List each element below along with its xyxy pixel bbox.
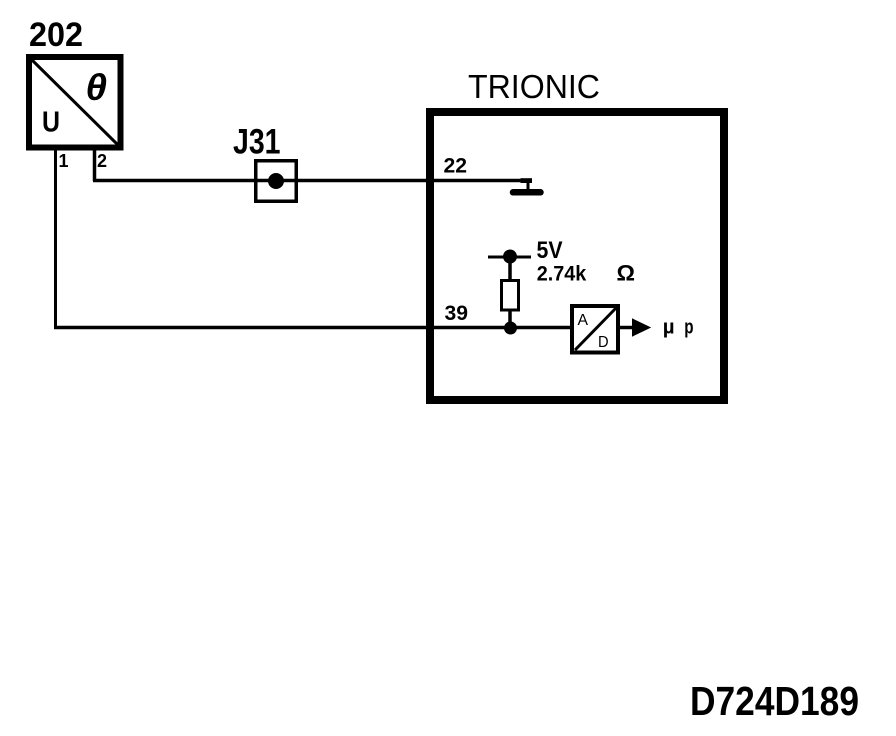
svg-text:2.74k: 2.74k [537,262,587,285]
5V supply rail [488,250,531,264]
wire resistor to node39 [508,310,512,329]
A/D converter [572,306,618,353]
svg-text:2: 2 [97,151,107,171]
svg-text:J31: J31 [233,123,281,162]
junction dot J31 [268,173,284,189]
svg-text:θ: θ [86,67,108,108]
ECU box TRIONIC [430,112,724,400]
wire pin1 vertical segment [54,148,57,329]
svg-text:D: D [598,334,609,351]
svg-text:202: 202 [29,16,83,54]
svg-text:Ω: Ω [617,261,636,286]
temperature sensor 202 [29,57,121,148]
wire pin2 vertical stub [93,148,97,181]
wire pin2 to J31 to pin22 [93,179,531,183]
connector J31 [256,161,297,202]
svg-text:U: U [42,107,60,139]
wire 5V to resistor [508,257,512,281]
svg-text:A: A [578,312,589,329]
svg-text:39: 39 [445,301,469,325]
svg-text:1: 1 [59,151,69,171]
svg-text:22: 22 [444,155,468,178]
svg-text:5V: 5V [537,237,564,264]
svg-text:µ: µ [663,316,675,339]
switch contact at pin 22 [513,178,541,192]
wire node39 horizontal segment [54,326,572,330]
arrow to microprocessor [620,318,651,336]
junction node 39 [504,322,517,335]
svg-text:D724D189: D724D189 [690,678,859,724]
svg-text:p: p [684,315,693,338]
svg-text:TRIONIC: TRIONIC [468,68,600,105]
resistor R 2.74k [502,281,519,311]
